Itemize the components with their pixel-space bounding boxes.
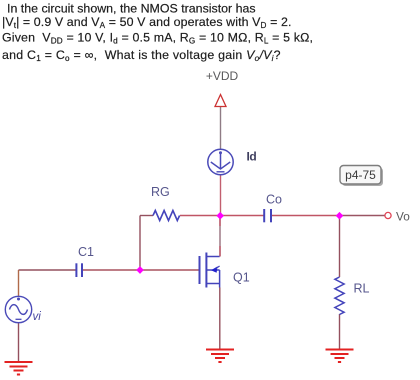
- svg-text:p4-75: p4-75: [345, 168, 376, 182]
- svg-text:+VDD: +VDD: [206, 69, 239, 83]
- svg-text:Vo: Vo: [396, 209, 410, 223]
- svg-text:Id: Id: [247, 150, 257, 164]
- svg-text:RG: RG: [151, 185, 170, 199]
- svg-text:and C1 = Co = ∞, What is the: and C1 = Co = ∞, What is the voltage gai…: [2, 48, 281, 63]
- svg-text:C1: C1: [78, 245, 94, 259]
- svg-text:Q1: Q1: [233, 271, 250, 285]
- svg-text:RL: RL: [354, 282, 370, 296]
- svg-text:Co: Co: [266, 193, 282, 207]
- svg-text:|Vt| = 0.9 V and VA = 50 V and: |Vt| = 0.9 V and VA = 50 V and operates …: [2, 15, 292, 30]
- svg-text:vi: vi: [33, 311, 42, 323]
- svg-text:In the circuit shown, the NMOS: In the circuit shown, the NMOS transisto…: [7, 2, 256, 16]
- svg-text:Given VDD = 10 V, Id = 0.5 mA: Given VDD = 10 V, Id = 0.5 mA, RG = 10 M…: [2, 30, 313, 45]
